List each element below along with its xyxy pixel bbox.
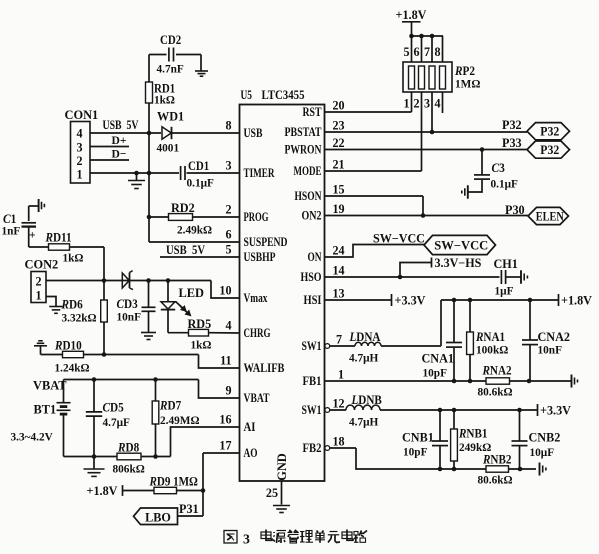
svg-text:PBSTAT: PBSTAT [285,125,323,139]
resistor RD8 [117,453,141,460]
junction CNB2 bottom [518,467,523,472]
svg-text:4: 4 [225,319,231,333]
U5 pin 7 open circle [325,344,330,349]
IC U5 LTC3455 body [240,105,325,482]
wire PROG (RD2 row) [149,216,240,218]
RP2 pin4 stub [442,92,444,113]
junction TIMER/RD1 column [147,171,152,176]
svg-text:+1.8V: +1.8V [87,484,118,498]
svg-text:MODE: MODE [294,164,322,178]
battery BT1 [63,380,65,403]
svg-text:0.1μF: 0.1μF [187,176,214,190]
wire CON1 pin1 to TIMER [90,172,179,174]
net tag P32 (PWRON) [527,141,570,158]
svg-text:3: 3 [424,97,430,111]
svg-text:100kΩ: 100kΩ [476,343,508,357]
junction C3 [480,147,485,152]
svg-text:23: 23 [333,119,345,133]
inductor LDNB [346,405,380,410]
svg-text:18: 18 [333,435,345,449]
junction RD1/USB5V [147,131,152,136]
svg-text:2: 2 [413,97,419,111]
wire USB 5V net (CON1 pin4 to U5 USB) [90,132,161,134]
svg-text:3.32kΩ: 3.32kΩ [62,311,97,325]
svg-text:19: 19 [333,202,345,216]
ground at CON1 pin1 [136,173,138,180]
svg-text:CD2: CD2 [160,33,181,47]
wire FB2 row [330,447,356,449]
ground below battery rail [93,457,95,469]
small ground at C1 top [29,205,38,207]
junction LED [166,278,171,283]
power +3.3V at HSI [391,294,393,306]
junction CNB1 bottom [438,467,443,472]
junction RD6/RD10 [102,352,107,357]
wire column junction to PROG [148,133,150,242]
wire LDNB to +3.3V rail [380,409,538,411]
svg-text:USBHP: USBHP [244,250,276,264]
svg-text:3.3V−HS: 3.3V−HS [435,256,482,270]
svg-text:BT1: BT1 [34,403,57,417]
resistor RD2 [169,214,193,221]
svg-text:RD8: RD8 [117,441,139,455]
resistor network RP2 [403,62,452,92]
svg-text:HSI: HSI [304,293,322,307]
svg-text:1: 1 [35,289,41,303]
junction CNB2 top [517,408,522,413]
svg-text:USB: USB [244,126,263,140]
svg-text:21: 21 [333,158,345,172]
power +1.8V rail tick [558,294,560,306]
svg-text:8: 8 [434,45,440,59]
svg-text:2: 2 [225,203,231,217]
junction CD3 [146,278,151,283]
svg-text:4.7μH: 4.7μH [349,351,379,365]
wire ON2 to ELEN [325,215,529,217]
svg-text:4.7nF: 4.7nF [157,62,184,76]
svg-text:PROG: PROG [244,210,269,224]
svg-text:P32: P32 [540,143,559,157]
svg-text:1nF: 1nF [2,224,21,238]
svg-text:PWRON: PWRON [285,143,322,157]
svg-text:1.24kΩ: 1.24kΩ [55,361,90,375]
svg-text:USB 5V: USB 5V [166,243,205,257]
svg-text:WALIFB: WALIFB [244,361,285,375]
wire ON to SW-VCC [325,245,425,258]
junction CNA2 bottom [527,379,532,384]
wire +1.8V rail A [441,299,559,301]
svg-text:TIMER: TIMER [244,166,276,180]
wire LED to RD5 [167,310,169,333]
resistor RNA1 [469,300,471,332]
capacitor CNA1 [453,300,455,342]
svg-text:11: 11 [220,354,231,368]
svg-text:25: 25 [266,486,278,500]
junction RP2 pin5 [409,34,414,39]
svg-text:24: 24 [333,244,345,258]
junction RNA1 bottom [468,379,473,384]
svg-text:1: 1 [403,97,409,111]
svg-text:5: 5 [403,45,409,59]
svg-text:P32: P32 [540,125,559,139]
svg-text:+: + [29,230,36,242]
U5 pin 25 GND lead [281,481,283,505]
svg-text:80.6kΩ: 80.6kΩ [478,473,513,487]
svg-text:RD6: RD6 [61,298,83,312]
svg-text:2: 2 [35,275,41,289]
svg-text:4001: 4001 [157,141,180,155]
capacitor C3 [481,150,483,175]
svg-text:FB1: FB1 [303,374,322,388]
resistor RNA2 [486,378,510,384]
svg-text:10pF: 10pF [403,445,428,459]
svg-text:806kΩ: 806kΩ [113,462,145,476]
svg-text:2: 2 [76,154,82,168]
svg-text:RST: RST [303,105,323,119]
svg-text:80.6kΩ: 80.6kΩ [478,385,513,399]
svg-text:WD1: WD1 [157,110,184,124]
junction RD7 top [153,377,158,382]
svg-text:RNA2: RNA2 [482,364,512,378]
svg-text:0.1μF: 0.1μF [491,177,518,191]
svg-text:SUSPEND: SUSPEND [244,235,288,249]
power 3.3V-HS [400,263,431,278]
svg-text:15: 15 [333,183,345,197]
junction CNA1 bottom [452,379,457,384]
wire MODE to RP2 pin2 [325,170,422,172]
resistor RD7 [155,380,157,402]
capacitor CD5 [93,380,95,412]
wire USBHP stub [160,256,240,258]
wire RD8 to AI [141,456,171,458]
svg-text:20: 20 [333,99,345,113]
wire RD10 to WALIFB [84,354,199,356]
svg-text:U5: U5 [241,88,253,102]
ground at CON2 pin1 [49,306,63,308]
resistor RD5 [189,329,209,336]
junction RNA1 top [468,298,473,303]
svg-text:ON: ON [308,250,322,264]
svg-text:RD7: RD7 [159,399,181,413]
net tag ELEN [528,207,569,224]
junction CNA1 top [452,298,457,303]
svg-text:10pF: 10pF [423,366,448,380]
svg-text:CHRG: CHRG [244,326,271,340]
svg-text:+1.8V: +1.8V [561,294,592,308]
svg-text:ON2: ON2 [302,209,322,223]
wire HSO row [325,276,500,278]
junction RNB1 bottom [452,467,457,472]
svg-text:RD9 1MΩ: RD9 1MΩ [149,475,198,489]
wire HSON down to ON2 [325,195,424,197]
resistor RD9 [154,487,177,493]
svg-text:CON1: CON1 [65,108,99,122]
resistor RNB2 [486,466,509,472]
net tag SW-VCC [424,235,496,254]
svg-text:17: 17 [219,439,231,453]
svg-text:HSON: HSON [295,189,322,203]
svg-text:10nF: 10nF [538,343,563,357]
junction PBSTAT/RP2 pin3 [430,130,435,135]
junction CON1 pin1 ground [134,171,139,176]
svg-text:RD10: RD10 [54,339,82,353]
svg-text:P31: P31 [179,502,199,516]
svg-text:+1.8V: +1.8V [396,8,427,22]
resistor RD1 [148,55,150,83]
capacitor CD3 [148,281,150,308]
wire PWRON to P32 [325,149,528,151]
svg-text:3: 3 [243,532,250,547]
small ground at FB2 [539,463,541,476]
wire RST to RP2 pin1 [325,111,412,113]
wire SUSPEND [149,241,240,243]
junction CNA2 top [528,298,533,303]
U5 pin 18 open circle [325,446,330,451]
svg-text:D+: D+ [112,133,127,147]
svg-text:2.49MΩ: 2.49MΩ [160,413,200,427]
wire RD9 to AO column [177,490,204,492]
wire D- stub (CON1 pin2) [90,159,129,161]
svg-text:+3.3V: +3.3V [540,404,571,418]
wire CH1 to ground [506,276,521,278]
LED D1 [167,281,169,302]
svg-text:C3: C3 [492,161,505,175]
junction CD5 bottom [92,454,97,459]
caption 图 3 电源管理单元电路 [224,531,237,543]
RP2 pin2 lead to MODE [421,92,423,171]
capacitor CNA2 [529,300,531,340]
svg-text:HSO: HSO [301,270,322,284]
power +3.3V rail tick [537,404,539,416]
wire SW1A to LDNA [330,345,355,347]
junction RD9/AO [201,488,206,493]
svg-text:D−: D− [112,147,127,161]
diode WD1 4001 [162,127,171,139]
junction HSON/ON2 [421,213,426,218]
capacitor CNB2 [519,410,521,441]
svg-text:8: 8 [225,119,231,133]
wire FB1 row [325,380,572,382]
wire LDNA to +1.8V rail [381,345,441,347]
svg-text:LDNB: LDNB [351,393,382,407]
capacitor CD1 [180,166,182,180]
svg-text:2.49kΩ: 2.49kΩ [177,223,212,237]
svg-text:1μF: 1μF [495,284,514,298]
svg-text:ELEN: ELEN [536,209,564,223]
wire AO to LBO column [203,452,240,454]
wire D+ stub (CON1 pin3) [90,146,129,148]
wire PBSTAT to P32 [325,131,528,133]
wire RD10 row [41,354,63,356]
wire C1 to RD11 [28,228,30,248]
junction CD5 top [92,377,97,382]
wire RD11 to CON2 node [70,246,105,248]
junction RP2 pin7 [430,34,435,39]
svg-text:AI: AI [244,420,256,434]
svg-text:RD5: RD5 [188,317,212,331]
U5 pin 12 open circle [325,408,330,413]
junction RD6 column [102,278,107,283]
svg-text:RNB2: RNB2 [482,453,511,467]
resistor RD10 [63,351,84,357]
svg-text:CH1: CH1 [494,257,518,271]
wire RD1 to USB net [148,103,150,133]
wire RP2 top bus [412,35,444,37]
svg-text:7: 7 [424,45,430,59]
svg-text:5: 5 [225,243,231,257]
svg-text:12: 12 [333,397,345,411]
svg-text:6: 6 [413,45,419,59]
wire VBAT rail [64,379,199,381]
wire to LBO tag [178,515,204,517]
svg-text:6: 6 [225,228,231,242]
svg-text:10μF: 10μF [530,445,555,459]
svg-text:+3.3V: +3.3V [395,294,426,308]
ground at U5 pin 25 [273,505,290,507]
svg-text:16: 16 [219,413,231,427]
svg-text:1MΩ: 1MΩ [455,77,480,91]
inductor LDNA [355,342,381,346]
svg-text:VBAT: VBAT [33,379,67,393]
svg-text:LED: LED [179,286,205,300]
svg-text:Vmax: Vmax [244,291,269,305]
wire CON2 pin1 to ground [46,297,56,307]
svg-text:RNB1: RNB1 [458,427,487,441]
zener diode on Vmax row [122,273,129,288]
svg-text:CD1: CD1 [188,159,209,173]
svg-text:CNB1: CNB1 [402,431,434,445]
small ground at CH1 [520,270,522,284]
svg-text:SW1: SW1 [302,339,322,353]
svg-text:3: 3 [76,141,82,155]
wire CD2 to ground [200,55,202,71]
small ground at FB1 [571,375,573,388]
svg-text:1kΩ: 1kΩ [63,251,84,265]
inverted ground at RD10 [34,345,47,347]
svg-text:LDNA: LDNA [349,330,381,344]
svg-text:P32: P32 [502,118,522,132]
capacitor CH1 [500,270,502,284]
svg-text:SW−VCC: SW−VCC [434,238,488,252]
svg-text:AO: AO [244,446,258,460]
svg-text:13: 13 [333,287,345,301]
wire RD5 to CHRG [209,332,240,334]
wire +1.8V to RD9 [123,490,155,492]
svg-text:LTC3455: LTC3455 [262,88,305,102]
svg-text:SW−VCC: SW−VCC [373,232,425,246]
svg-text:VBAT: VBAT [244,391,271,405]
svg-text:1: 1 [76,168,82,182]
svg-text:CNA1: CNA1 [422,352,455,366]
wire SW1B to LDNB [330,409,346,411]
svg-text:CD5: CD5 [103,401,124,415]
svg-text:1: 1 [338,368,344,382]
svg-text:3.3~4.2V: 3.3~4.2V [11,430,54,444]
svg-text:CNB2: CNB2 [529,431,561,445]
net tag P32 (PBSTAT) [527,123,570,140]
junction PROG column [147,215,152,220]
svg-text:22: 22 [333,136,345,150]
svg-text:FB2: FB2 [303,441,322,455]
capacitor CD2 [168,48,170,62]
svg-text:P33: P33 [502,136,522,150]
wire battery bottom rail [64,456,118,458]
svg-text:RD2: RD2 [171,201,195,215]
wire HSI to +3.3V [325,299,392,301]
svg-text:USB 5V: USB 5V [103,118,139,132]
capacitor CNB1 [439,410,441,441]
junction RP2 pin6 [419,34,424,39]
wire Vmax row (CON2 pin2 to U5 Vmax) [46,280,211,282]
net tag LBO [134,508,178,525]
resistor RNB1 [453,410,455,429]
svg-text:4.7μH: 4.7μH [349,415,379,429]
svg-text:SW1: SW1 [302,403,322,417]
svg-text:10: 10 [219,284,231,298]
svg-text:4: 4 [76,127,82,141]
RP2 top leads [411,36,413,62]
wire CD2 top [149,54,167,56]
RP2 pin3 lead to PBSTAT [431,92,433,132]
small ground at C3 [467,185,469,199]
RP2 pin1 lead to RST [411,92,413,112]
svg-text:RD11: RD11 [45,231,72,245]
junction RNB1 top [452,408,457,413]
svg-text:4: 4 [434,97,440,111]
junction 3.3V-HS branch [398,275,403,280]
svg-text:9: 9 [225,384,231,398]
ground at CD2 [195,70,208,72]
svg-text:GND: GND [275,453,289,481]
junction RD7 bottom [153,454,158,459]
junction CNB1 top [438,408,443,413]
svg-text:CON2: CON2 [25,258,59,272]
svg-text:3: 3 [225,159,231,173]
capacitor C1 (polarized) [28,206,30,221]
svg-text:1kΩ: 1kΩ [191,338,212,352]
svg-text:10nF: 10nF [117,310,142,324]
svg-text:P30: P30 [505,203,525,217]
resistor RD11 [49,244,70,250]
svg-text:7: 7 [336,333,342,347]
svg-text:1kΩ: 1kΩ [154,93,175,107]
resistor RD6 [103,281,105,301]
power +1.8V at RD9 [122,485,124,496]
svg-text:4.7μF: 4.7μF [103,415,130,429]
svg-text:LBO: LBO [145,510,171,524]
ground at CD3 [141,332,156,334]
svg-text:14: 14 [333,264,345,278]
